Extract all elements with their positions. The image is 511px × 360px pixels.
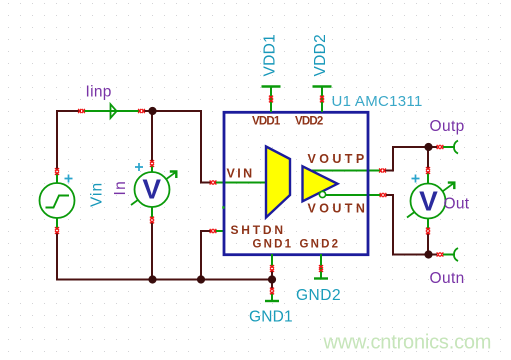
svg-text:VIN: VIN [227, 167, 255, 181]
current arrow Iinp [84, 104, 140, 118]
VOUTN pin stub [326, 194, 381, 196]
wire: VOUTN to bottom-right junction [386, 195, 437, 255]
svg-text:VOUTP: VOUTP [308, 152, 368, 166]
pin-end mark VOUTP [379, 168, 386, 172]
voltmeter In [131, 163, 176, 218]
wire: meter Out bottom [427, 233, 429, 255]
svg-text:V: V [142, 173, 161, 204]
svg-text:VDD1: VDD1 [262, 34, 279, 77]
supply VDD1 [262, 87, 281, 113]
svg-text:VOUTN: VOUTN [308, 202, 369, 216]
pin-end mark GND1 upper [270, 265, 274, 272]
svg-text:www.cntronics.com: www.cntronics.com [323, 332, 492, 354]
ground GND1 [265, 254, 279, 301]
ground GND2 [314, 254, 328, 279]
svg-text:GND1: GND1 [249, 309, 293, 326]
wire: GND1 pin middle segment [271, 271, 273, 289]
wire: SHTDN riser [201, 231, 211, 280]
svg-text:V: V [419, 186, 438, 217]
junction at Outn / meter Out [424, 250, 432, 258]
pin pip on left border [222, 206, 224, 208]
wire: meter In bottom [151, 222, 153, 280]
svg-text:Outp: Outp [430, 118, 465, 135]
svg-text:VDD2: VDD2 [312, 34, 329, 77]
pin-end mark terminal Outn [437, 252, 444, 256]
terminal Outp wire [443, 146, 455, 148]
wire: bottom rail [56, 279, 272, 281]
pin-end mark source + [55, 168, 59, 175]
wire: meter Out top [427, 147, 429, 168]
terminal Outp [454, 141, 458, 154]
pin-end mark GND2 [319, 265, 323, 272]
pin-end mark arrow right [138, 109, 145, 113]
VOUTP pin stub [312, 170, 380, 172]
wire: left rail below source [56, 232, 58, 281]
junction at Outp / meter Out [424, 143, 432, 151]
voltage source VG1 [40, 174, 75, 229]
pin-end mark meter Out - [426, 228, 430, 235]
svg-text:SHTDN: SHTDN [231, 223, 286, 237]
pin-end mark arrow left [78, 109, 85, 113]
pin-end mark meter In - [150, 217, 154, 224]
svg-text:GND2: GND2 [296, 287, 341, 304]
svg-text:U1 AMC1311: U1 AMC1311 [332, 93, 423, 110]
SHTDN pin stub [215, 230, 224, 232]
pin-end mark VDD1 [269, 96, 273, 103]
output buffer triangle [303, 166, 338, 201]
pin-end mark source - [55, 227, 59, 234]
pin-end mark terminal Outp [437, 145, 444, 149]
pin-end mark VOUTN [380, 193, 387, 197]
supply VDD2 [313, 87, 332, 113]
wire: VOUTP to top-right junction [385, 147, 437, 171]
terminal Outn wire [443, 254, 455, 256]
svg-text:In: In [112, 180, 129, 196]
IC U1 AMC1311 box [224, 112, 368, 254]
junction at bottom wire / SHTDN riser [197, 275, 205, 283]
svg-text:VDD2: VDD2 [295, 116, 323, 128]
wire top-left: source to arrow [56, 110, 58, 169]
junction at bottom wire / meter In [148, 275, 156, 283]
svg-text:Iinp: Iinp [86, 84, 112, 101]
input stage trapezoid [266, 147, 290, 218]
VIN pin stub [215, 182, 266, 184]
svg-text:GND2: GND2 [300, 239, 341, 251]
pin-end mark VIN [210, 180, 217, 184]
inversion bubble [319, 191, 325, 197]
pin-end mark VDD2 [320, 96, 324, 103]
svg-text:Out: Out [444, 196, 470, 213]
svg-text:Outn: Outn [430, 270, 465, 287]
pin-end mark meter Out + [426, 167, 430, 174]
wire: meter In top [151, 111, 153, 161]
terminal Outn [454, 248, 458, 261]
svg-text:GND1: GND1 [253, 239, 294, 251]
junction at top wire / meter In [148, 107, 156, 115]
pin-end mark meter In + [150, 160, 154, 167]
wire: arrow to junction to VIN corner [143, 111, 211, 183]
svg-text:VDD1: VDD1 [252, 116, 281, 128]
pin-end mark GND1 lower [270, 288, 274, 295]
svg-text:Vin: Vin [89, 182, 106, 207]
junction at bottom wire / GND1 [268, 275, 276, 283]
pin-end mark SHTDN [210, 229, 217, 233]
voltmeter Out [407, 173, 454, 230]
